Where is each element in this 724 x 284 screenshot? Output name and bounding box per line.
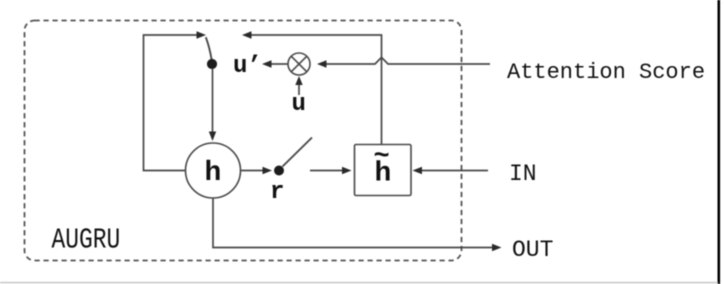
arrowhead toward u' — [262, 60, 272, 67]
AUGRU dashed enclosure box — [25, 21, 462, 261]
arrowhead into h-tilde — [342, 167, 352, 174]
arrowhead down into h — [209, 132, 216, 142]
right page border bar — [718, 0, 721, 284]
wire: h recurrent feedback (left loop) — [144, 35, 199, 171]
switch arm (update gate u') — [206, 37, 212, 59]
wire: h-tilde feedback to switch lower contact — [249, 35, 382, 144]
wire: IN into h-tilde — [420, 170, 488, 172]
svg-text:h: h — [205, 158, 222, 189]
svg-text:IN: IN — [509, 161, 537, 187]
arrowhead OUT — [492, 244, 502, 251]
faint bottom rule — [0, 282, 718, 284]
wire: switch to h-tilde box — [310, 170, 345, 172]
multiplier (x in circle) — [288, 53, 310, 75]
arrowhead pointing left toward switch — [242, 31, 252, 38]
wire: u into multiplier — [298, 83, 300, 96]
wire: attention score line with hop over vertical wire — [324, 57, 490, 64]
reset switch arm (open) — [283, 138, 313, 167]
svg-text:Attention Score: Attention Score — [507, 60, 705, 85]
wire: h to OUT — [213, 198, 494, 248]
svg-text:OUT: OUT — [512, 237, 553, 263]
h state circle — [186, 143, 241, 198]
svg-text:u’: u’ — [233, 53, 262, 80]
svg-text:AUGRU: AUGRU — [52, 223, 121, 256]
svg-text:r: r — [270, 179, 284, 206]
wire: multiplier output to u' — [269, 63, 288, 65]
h-tilde candidate box — [355, 145, 412, 196]
arrowhead into multiplier — [317, 60, 327, 67]
wire: dot down into h — [212, 69, 214, 134]
node: switch pivot dot — [207, 59, 217, 69]
arrowhead up into multiplier — [295, 76, 302, 85]
wire: h to reset switch — [241, 170, 265, 172]
svg-text:u: u — [292, 91, 306, 118]
node: reset switch pivot dot — [274, 166, 284, 176]
svg-text:~: ~ — [374, 143, 390, 173]
arrowhead into reset pivot — [263, 167, 273, 174]
arrowhead into h-tilde from right — [413, 167, 423, 174]
arrowhead into switch upper contact — [197, 31, 207, 38]
